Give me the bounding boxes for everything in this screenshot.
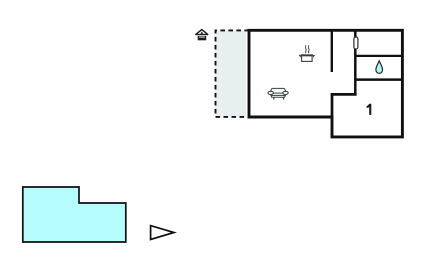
room label 1 xyxy=(367,104,372,115)
plot shape (cyan polygon) xyxy=(23,187,126,242)
house icon xyxy=(196,30,208,41)
pot icon (kitchen) xyxy=(299,45,316,61)
room1 left wall (upper segment) xyxy=(331,93,334,117)
water drop (bathroom) xyxy=(376,61,383,74)
sofa icon (living room) xyxy=(268,88,288,99)
bathroom bottom wall xyxy=(355,78,402,81)
outer walls xyxy=(249,30,402,137)
bathroom top wall xyxy=(355,55,402,57)
terrace (dashed) xyxy=(216,30,247,117)
kitchen wall xyxy=(331,31,333,73)
room1 top wall xyxy=(331,93,357,96)
hall wall xyxy=(354,31,357,96)
direction arrow xyxy=(151,226,174,240)
door on hall wall xyxy=(354,37,358,49)
